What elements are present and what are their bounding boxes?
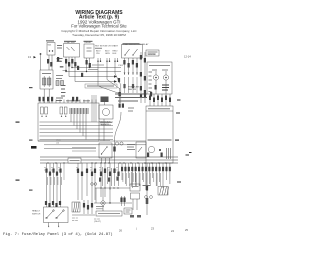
svg-text:Fig. 7: Fuse/Relay Panel (3 o: Fig. 7: Fuse/Relay Panel (3 of 4), (Gold…	[3, 232, 113, 237]
svg-text:25: 25	[185, 228, 188, 232]
svg-text:BLK: BLK	[113, 53, 118, 55]
svg-text:12-14: 12-14	[184, 55, 191, 59]
svg-text:HOT IN RUN OR START: HOT IN RUN OR START	[95, 45, 119, 48]
svg-text:C101: C101	[118, 65, 124, 67]
svg-text:xx: xx	[108, 170, 110, 172]
svg-text:13: 13	[28, 55, 31, 59]
svg-text:26: 26	[119, 229, 122, 233]
svg-text:24: 24	[171, 229, 174, 233]
svg-text:23: 23	[151, 227, 154, 231]
svg-text:xx: xx	[51, 170, 53, 172]
svg-text:S25: S25	[48, 45, 53, 47]
svg-text:LOAD REDUCTION RELAY: LOAD REDUCTION RELAY	[123, 43, 149, 46]
svg-text:|: |	[137, 227, 138, 231]
svg-text:xx: xx	[90, 170, 92, 172]
svg-text:xx: xx	[76, 170, 78, 172]
svg-text:xx: xx	[116, 170, 118, 172]
svg-text:4: 4	[58, 226, 60, 229]
svg-text:x14: x14	[56, 143, 59, 145]
svg-text:FAN MTR: FAN MTR	[100, 123, 110, 126]
svg-text:Tuesday, December 05, 1998 10: Tuesday, December 05, 1998 10:04PM	[72, 33, 126, 37]
svg-text:For Volkswagen Technical Site: For Volkswagen Technical Site	[71, 24, 127, 29]
svg-text:FAN SW: FAN SW	[128, 88, 136, 91]
svg-text:xx xxx: xx xxx	[72, 220, 79, 222]
svg-text:LOAD RED: LOAD RED	[65, 41, 76, 44]
svg-text:xx: xx	[44, 170, 46, 172]
svg-text:SWITCH: SWITCH	[32, 214, 41, 216]
svg-text:xx: xx	[99, 170, 101, 172]
svg-text:4: 4	[48, 226, 50, 229]
svg-text:YEL: YEL	[96, 53, 101, 55]
svg-text:xx: xx	[58, 170, 60, 172]
svg-text:HEADLT: HEADLT	[32, 210, 41, 213]
svg-text:RELAY: RELAY	[85, 41, 92, 44]
svg-text:(24-07): (24-07)	[94, 221, 101, 223]
svg-text:GRN: GRN	[105, 53, 110, 55]
svg-text:IGN SW: IGN SW	[148, 54, 156, 56]
